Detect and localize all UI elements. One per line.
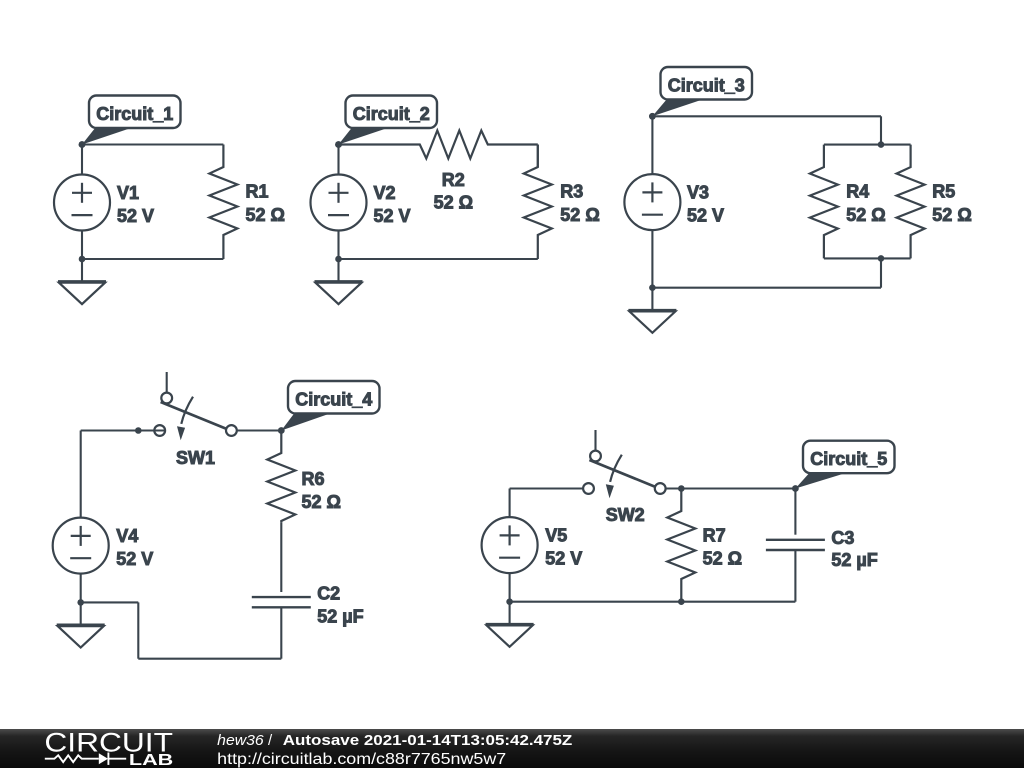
value label V3 52 V	[687, 183, 724, 226]
resistor R6	[267, 431, 295, 523]
svg-text:Circuit_3: Circuit_3	[668, 75, 745, 95]
wire C3 down	[794, 550, 796, 602]
voltage source V4	[53, 518, 109, 574]
svg-text:52 Ω: 52 Ω	[846, 205, 885, 225]
wire V4 to ground node	[80, 574, 82, 603]
value label R6 52 Ω	[302, 469, 341, 512]
value label R3 52 Ω	[560, 181, 599, 224]
svg-text:52 Ω: 52 Ω	[703, 549, 742, 569]
wire V1 to ground node	[81, 230, 83, 259]
svg-text:SW1: SW1	[176, 448, 215, 468]
wire down to parallel pair	[880, 116, 882, 144]
svg-text:R3: R3	[560, 181, 583, 201]
svg-text:V4: V4	[116, 526, 138, 546]
svg-text:Autosave 2021-01-14T13:05:42.4: Autosave 2021-01-14T13:05:42.475Z	[283, 732, 573, 749]
wire R6 to C2	[280, 522, 282, 592]
junction R7 top	[678, 485, 685, 492]
junction parallel top	[878, 141, 885, 148]
svg-text:V2: V2	[374, 183, 396, 203]
wire V4 to switch SW1	[81, 429, 165, 431]
wire bottom Circuit_1	[82, 258, 223, 260]
value label C3 52 µF	[831, 528, 877, 570]
label Circuit_1	[79, 96, 181, 148]
resistor R4	[810, 145, 838, 259]
resistor R3	[524, 145, 552, 260]
svg-text:52 Ω: 52 Ω	[560, 205, 599, 225]
capacitor C2	[252, 597, 311, 607]
svg-text:/: /	[268, 732, 273, 749]
svg-text:Circuit_4: Circuit_4	[295, 389, 372, 409]
svg-text:C2: C2	[317, 584, 340, 604]
svg-text:http://circuitlab.com/c88r7765: http://circuitlab.com/c88r7765nw5w7	[217, 751, 506, 768]
svg-text:52 V: 52 V	[117, 206, 154, 226]
value label V4 52 V	[116, 526, 153, 569]
svg-text:V1: V1	[117, 183, 139, 203]
wire bottom Circuit_4	[138, 658, 281, 660]
wire SW1 to node N4	[237, 429, 281, 431]
junction Circuit_1 bottom	[79, 256, 86, 263]
svg-text:C3: C3	[831, 528, 854, 548]
node N1 (Circuit_1 top-left)	[79, 141, 86, 148]
junction Circuit_2 bottom	[335, 256, 342, 263]
capacitor C3	[766, 540, 825, 550]
resistor R2	[339, 131, 538, 159]
switch SW1	[154, 372, 237, 440]
label Circuit_4	[278, 381, 380, 434]
resistor R5	[897, 145, 925, 259]
svg-text:52 V: 52 V	[545, 549, 582, 569]
value label R5 52 Ω	[932, 181, 971, 224]
ground Circuit_4	[57, 602, 105, 647]
wire N3 to V3	[651, 116, 653, 174]
svg-text:V3: V3	[687, 183, 709, 203]
wire V4 upper	[80, 431, 82, 518]
junction Circuit_3 bottom	[649, 284, 656, 291]
wire bottom Circuit_2	[339, 258, 538, 260]
svg-text:52 V: 52 V	[374, 206, 411, 226]
wire parallel bottom bar	[824, 257, 911, 259]
switch SW2	[583, 430, 666, 498]
junction R7 bottom	[678, 598, 685, 605]
label Circuit_3	[649, 67, 752, 120]
svg-text:52 V: 52 V	[116, 549, 153, 569]
value label R7 52 Ω	[703, 526, 742, 569]
value label V1 52 V	[117, 183, 154, 226]
resistor R1	[209, 145, 237, 260]
junction Circuit_4 bottom	[77, 599, 84, 606]
value label R2 52 Ω	[434, 170, 473, 212]
wire parallel top bar	[824, 144, 911, 146]
svg-text:52 µF: 52 µF	[831, 550, 877, 570]
value label R4 52 Ω	[846, 181, 885, 224]
voltage source V3	[624, 174, 680, 230]
wire SW2 to R7	[666, 487, 796, 489]
wire N2 to V2	[337, 145, 339, 176]
wire bottom-left riser Circuit_4	[137, 602, 139, 658]
junction parallel bottom	[878, 255, 885, 262]
svg-text:R2: R2	[442, 170, 465, 190]
wire R2 to R3 corner	[537, 145, 539, 168]
svg-text:52 V: 52 V	[687, 206, 724, 226]
ground Circuit_2	[315, 259, 363, 304]
svg-text:52 Ω: 52 Ω	[246, 205, 285, 225]
wire N1 top	[82, 143, 223, 145]
wire V3 to ground node	[651, 230, 653, 288]
node N2 (Circuit_2 top-left)	[335, 141, 342, 148]
wire C3 upper	[794, 489, 796, 535]
value label C2 52 µF	[317, 584, 363, 627]
wire bottom Circuit_5	[510, 601, 796, 603]
wire V2 to ground node	[337, 230, 339, 259]
voltage source V2	[311, 175, 367, 231]
wire V5 to ground node	[509, 573, 511, 602]
svg-text:SW2: SW2	[606, 505, 645, 525]
junction SW1 pole wire	[135, 427, 142, 434]
svg-text:R1: R1	[246, 181, 269, 201]
svg-text:52 Ω: 52 Ω	[302, 492, 341, 512]
svg-text:V5: V5	[545, 526, 567, 546]
wire ground link Circuit_4	[81, 601, 139, 603]
wire N3 top	[652, 115, 881, 117]
wire bottom Circuit_3	[652, 287, 881, 289]
svg-text:52 Ω: 52 Ω	[434, 192, 473, 212]
voltage source V5	[482, 517, 538, 573]
svg-text:Circuit_1: Circuit_1	[96, 104, 173, 124]
voltage source V1	[54, 175, 110, 231]
svg-text:52 µF: 52 µF	[317, 607, 363, 627]
footer line 1: user / autosave timestamp	[217, 732, 572, 749]
svg-text:R7: R7	[703, 526, 726, 546]
svg-text:R4: R4	[846, 181, 869, 201]
value label R1 52 Ω	[246, 181, 285, 224]
wire N1 to V1	[81, 145, 83, 176]
label Circuit_2	[335, 96, 437, 148]
svg-text:Circuit_2: Circuit_2	[353, 104, 430, 124]
ground Circuit_1	[58, 259, 106, 304]
svg-text:Circuit_5: Circuit_5	[810, 449, 887, 469]
wire V5 upper	[509, 489, 511, 518]
node N3 (Circuit_3 top-left)	[649, 113, 656, 120]
value label V2 52 V	[374, 183, 411, 226]
ground Circuit_3	[628, 288, 676, 333]
svg-text:hew36: hew36	[217, 732, 264, 749]
ground Circuit_5	[486, 602, 534, 647]
resistor R7	[667, 489, 695, 602]
svg-text:R5: R5	[932, 181, 955, 201]
svg-text:LAB: LAB	[129, 752, 173, 768]
wire C2 down	[280, 607, 282, 658]
value label V5 52 V	[545, 526, 582, 569]
label Circuit_5	[792, 441, 895, 492]
svg-text:52 Ω: 52 Ω	[932, 205, 971, 225]
wire parallel pair down	[880, 258, 882, 287]
junction Circuit_5 bottom	[506, 598, 513, 605]
wire V5 to switch SW2	[510, 487, 583, 489]
svg-text:R6: R6	[302, 469, 325, 489]
CircuitLab logo resistor-diode glyph	[45, 753, 126, 765]
